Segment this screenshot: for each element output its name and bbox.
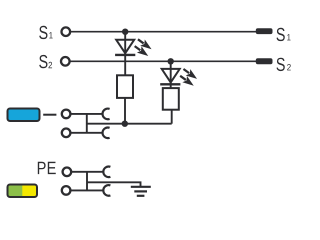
label PE — [38, 162, 56, 174]
wire LED1 branch vertical — [124, 32, 126, 76]
wire S2 horizontal — [70, 60, 256, 62]
LED D1 light arrows — [132, 36, 153, 59]
lug S1 right — [256, 28, 273, 34]
label S1 left — [39, 26, 52, 39]
clamp contact minus upper — [103, 109, 110, 120]
wire PE middle to ground — [87, 182, 141, 186]
clamp busbar minus — [86, 114, 88, 133]
clamp contact PE lower — [103, 185, 110, 196]
wire minus upper — [71, 113, 103, 115]
junction node on S1 wire — [122, 29, 128, 35]
junction node on S2 wire — [168, 58, 174, 64]
terminal circle S1 left — [62, 27, 71, 36]
blue marker (minus pole) — [8, 109, 40, 122]
wire PE upper — [72, 171, 104, 173]
terminal circle minus lower — [62, 129, 71, 138]
wire minus rail horizontal — [87, 123, 172, 125]
terminal circle S2 left — [61, 57, 70, 66]
terminal circle PE upper — [63, 168, 72, 177]
clamp contact PE upper — [103, 167, 110, 178]
resistor R2 — [163, 88, 179, 110]
clamp contact minus lower — [103, 128, 110, 139]
junction node on minus rail — [122, 121, 128, 127]
wire S1 horizontal — [71, 31, 257, 33]
label S2 right — [277, 58, 291, 71]
wire LED2 branch vertical — [170, 61, 172, 88]
label S2 left — [39, 55, 52, 68]
minus sign — [43, 114, 56, 116]
wire R1 to bottom node — [124, 98, 126, 124]
terminal circle PE lower — [62, 186, 71, 195]
clamp busbar PE — [86, 172, 88, 191]
LED D2 — [160, 69, 180, 84]
resistor R1 — [117, 75, 133, 98]
wire PE lower — [71, 189, 104, 191]
wire minus lower — [71, 132, 103, 134]
label S1 right — [277, 28, 291, 41]
wire R2 to minus rail — [171, 110, 173, 124]
ground — [131, 187, 151, 196]
LED D2 light arrows — [178, 66, 199, 89]
lug S2 right — [256, 58, 273, 64]
green-yellow marker (PE) — [8, 185, 38, 198]
LED D1 — [115, 40, 135, 55]
terminal circle minus upper — [62, 110, 71, 119]
